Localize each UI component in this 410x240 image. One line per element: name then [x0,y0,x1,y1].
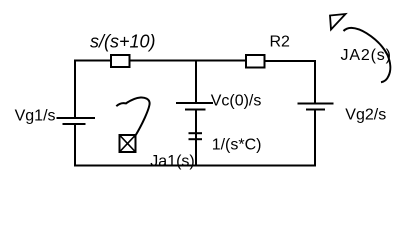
battery Vg1 short plate [63,123,86,125]
battery Vg2 long plate [298,103,334,105]
svg-text:JA2(s): JA2(s) [341,47,392,64]
svg-text:Ja1(s): Ja1(s) [150,153,194,170]
wire top-middle segment [130,60,247,62]
svg-text:R2: R2 [270,34,291,51]
wire top-left segment [75,60,111,62]
battery Vg1 long plate [57,117,96,119]
capacitor C plate 1 [189,132,203,134]
battery Vc short plate [185,109,206,111]
wire right vertical upper [314,60,316,104]
svg-text:s/(s+10): s/(s+10) [90,31,156,51]
wire bottom [74,165,316,167]
arrow Ja1 curved stroke [116,97,149,137]
arrowhead JA2 triangle [330,14,346,30]
wire left vertical lower [74,124,76,166]
wire left vertical upper [74,60,76,119]
wire top-right segment [265,60,317,62]
svg-text:Vg1/s: Vg1/s [15,107,56,124]
current source Ja1 crossed box [120,135,136,152]
battery Vc long plate [176,102,213,104]
svg-text:Vc(0)/s: Vc(0)/s [211,92,262,109]
capacitor C plate 2 [189,138,203,140]
wire middle vertical lower [195,110,197,166]
svg-text:Vg2/s: Vg2/s [345,107,386,124]
battery Vg2 short plate [306,109,325,111]
arrow JA2 curved stroke [344,28,391,82]
svg-text:1/(s*C): 1/(s*C) [212,136,262,153]
resistor R2 [246,55,265,68]
wire right vertical lower [314,110,316,167]
resistor Z1 box [111,55,130,67]
wire middle vertical upper [195,61,197,104]
